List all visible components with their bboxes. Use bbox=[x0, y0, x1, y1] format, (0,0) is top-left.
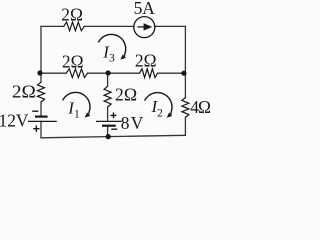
svg-text:V: V bbox=[16, 111, 29, 131]
svg-text:2Ω: 2Ω bbox=[61, 4, 83, 24]
svg-text:A: A bbox=[142, 0, 155, 18]
svg-text:4Ω: 4Ω bbox=[190, 97, 211, 117]
svg-text:2Ω: 2Ω bbox=[115, 85, 137, 105]
svg-text:V: V bbox=[131, 113, 144, 133]
svg-text:2Ω: 2Ω bbox=[135, 51, 157, 71]
svg-text:2Ω: 2Ω bbox=[62, 52, 84, 72]
svg-text:2Ω: 2Ω bbox=[12, 82, 36, 102]
svg-text:12: 12 bbox=[0, 111, 16, 131]
svg-text:8: 8 bbox=[121, 113, 130, 133]
